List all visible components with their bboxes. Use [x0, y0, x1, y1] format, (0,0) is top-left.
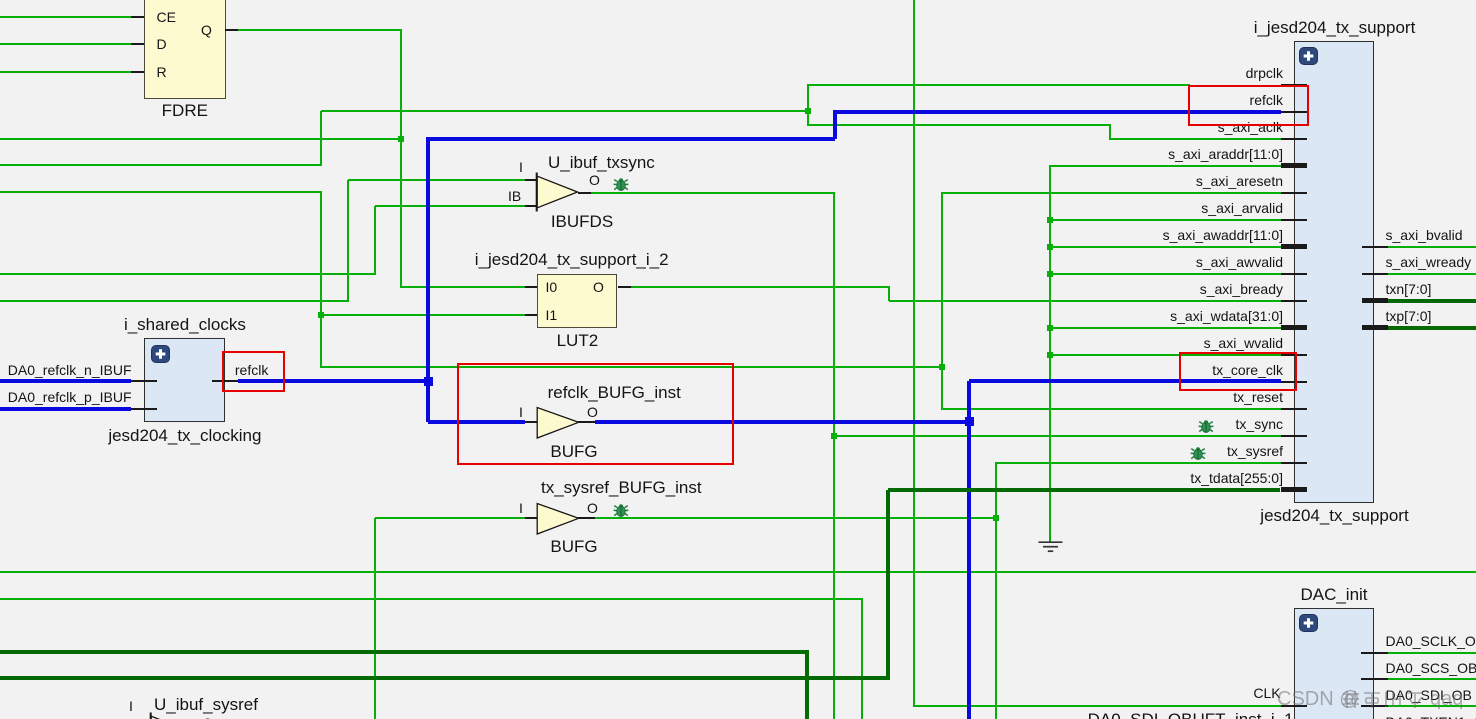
wire BUFG1 output blue — [595, 420, 969, 424]
label FDRE pin R — [157, 64, 167, 80]
wire IBUFDS I riser — [347, 180, 349, 301]
wire s_axi_arvalid wire — [1050, 219, 1281, 221]
block DAC_init — [1294, 608, 1374, 719]
pin stub IBUFDS O — [578, 192, 592, 194]
junction drpclk tap — [805, 108, 811, 114]
label support out label txp[7:0] — [1386, 308, 1432, 324]
wire net y598 drop — [861, 599, 863, 719]
wire LUT2 O jog — [888, 287, 890, 301]
pin stub support pin s_axi_wdata[31:0] — [1281, 325, 1307, 330]
label LUT2 pin I1 — [546, 307, 558, 323]
wire D input net — [0, 43, 131, 45]
wire s_axi_wready out wire — [1388, 273, 1476, 275]
label FDRE pin CE — [157, 9, 176, 25]
label support pin label s_axi_aresetn — [1023, 173, 1283, 189]
label DAC out label DA0_SCLK_OB — [1386, 633, 1476, 649]
pin stub BUFG1 O — [578, 421, 596, 423]
wire net A drpclk riser — [807, 84, 809, 127]
wire long vertical x914 — [913, 0, 915, 707]
junction wvalid tap — [1047, 352, 1053, 358]
wire tx_core_clk blue vertical — [967, 381, 971, 719]
wire IBUFDS IB feed — [0, 273, 376, 275]
pin stub support pin drpclk — [1281, 84, 1307, 86]
pin stub DAC out pin DA0_SCLK_OB — [1361, 652, 1388, 654]
wire LUT2 O wire — [631, 286, 890, 288]
junction Q net at y138 — [398, 136, 404, 142]
wire tx_sysref net vertical — [995, 463, 997, 719]
pin stub clocking in n — [131, 380, 157, 382]
wire IBUFDS O net vertical — [833, 193, 835, 719]
label support pin label tx_reset — [1023, 389, 1283, 405]
label instance U_ibuf_txsync — [548, 153, 655, 172]
pin stub support pin s_axi_awvalid — [1281, 273, 1307, 275]
label IBUFDS pin O — [589, 172, 600, 188]
label support pin label drpclk — [1023, 65, 1283, 81]
wire axi fanout vertical x1050 — [1049, 165, 1051, 543]
buffer U_ibuf_txsync IBUFDS — [535, 170, 582, 214]
label BUFG1 pin I — [519, 404, 523, 420]
pin stub clocking in p — [131, 408, 157, 410]
wire net A rise — [320, 111, 322, 166]
label support pin label s_axi_awaddr[11:0] — [1023, 227, 1283, 243]
wire s_axi_bvalid out wire — [1388, 246, 1476, 248]
wire s_axi_aclk wire — [1109, 138, 1281, 140]
label LUT2 name — [517, 331, 637, 350]
wire s_axi_aresetn wire — [942, 192, 1281, 194]
label module jesd204_tx_support — [1205, 506, 1465, 525]
label instance i_jesd204_tx_support_i_2 — [475, 250, 669, 269]
label instance refclk_BUFG_inst — [548, 383, 681, 402]
wire BUFG1 input blue — [428, 420, 525, 424]
label support pin label s_axi_araddr[11:0] — [1023, 146, 1283, 162]
debug bug icon on tx_sysref_BUFG O — [613, 503, 629, 518]
wire net B from left edge y191 — [0, 191, 322, 193]
label FDRE pin Q — [201, 22, 212, 38]
wire tx_tdata bus vertical — [886, 490, 890, 679]
label net DA0_refclk_n_IBUF — [0, 362, 132, 378]
junction tx_core_clk blue junction — [965, 417, 974, 426]
pin stub support pin tx_reset — [1281, 408, 1307, 410]
wire refclk blue wire to support — [833, 110, 1281, 114]
debug bug icon on tx_sync — [1198, 419, 1214, 434]
wire s_axi_wdata wire — [1050, 327, 1281, 329]
junction tx_sysref tap — [993, 515, 999, 521]
highlight box refclk pin — [1188, 85, 1308, 126]
wire net to left edge y138 — [0, 138, 402, 140]
label BUFG2 pin I — [519, 500, 523, 516]
junction reset net tap — [939, 364, 945, 370]
pin stub support out pin s_axi_wready — [1362, 273, 1388, 275]
wire sysref thick net bottom — [0, 650, 809, 654]
highlight box tx_core_clk pin — [1179, 352, 1298, 391]
label support pin label s_axi_wvalid — [1023, 335, 1283, 351]
wire tx_sync wire — [834, 435, 1281, 437]
label instance U_ibuf_sysref — [154, 695, 258, 714]
label support pin label s_axi_arvalid — [1023, 200, 1283, 216]
wire net B drop — [320, 191, 322, 368]
flip-flop FDRE — [144, 0, 226, 99]
label support pin label tx_sync — [1023, 416, 1283, 432]
label BUFG1 name — [514, 442, 634, 461]
label U_ibuf_sysref pin O — [202, 715, 213, 719]
wire BUFG2 output wire — [595, 517, 996, 519]
wire DA0_SCLK out wire — [1388, 652, 1476, 654]
pin stub FDRE CE — [131, 16, 144, 18]
junction refclk blue junction — [424, 377, 433, 386]
label module jesd204_tx_clocking — [75, 426, 295, 445]
junction wdata tap — [1047, 325, 1053, 331]
label DAC out label DA0_TXEN1_O — [1386, 714, 1476, 719]
wire DA0_refclk_n_IBUF blue input — [0, 379, 131, 383]
wire tx_reset wire — [942, 408, 1281, 410]
label IBUFDS pin IB — [508, 188, 521, 204]
wire refclk blue rise x835 — [833, 112, 837, 139]
label U_ibuf_sysref pin I — [129, 698, 133, 714]
wire IBUFDS IB riser — [374, 206, 376, 276]
label support pin label s_axi_awvalid — [1023, 254, 1283, 270]
highlight box refclk output — [222, 351, 284, 392]
pin stub FDRE R — [131, 71, 144, 73]
label DAC out label DA0_SCS_OB — [1386, 660, 1476, 676]
pin stub BUFG1 I — [525, 421, 537, 423]
wire R input net — [0, 71, 131, 73]
label support out label s_axi_bvalid — [1386, 227, 1463, 243]
wire net A jog2 — [1109, 125, 1111, 139]
label support pin label s_axi_aclk — [1023, 119, 1283, 135]
wire net B run to reset — [321, 366, 943, 368]
wire net A from left edge y164 — [0, 164, 322, 166]
junction awaddr tap — [1047, 244, 1053, 250]
wire s_axi_araddr wire — [1049, 165, 1281, 167]
wire LUT2 I1 wire — [321, 314, 525, 316]
wire DA0_SDI out wire — [1388, 705, 1476, 707]
gate LUT2 i_jesd204_tx_support_i_2 — [537, 274, 616, 328]
wire txn bus out wire — [1388, 299, 1476, 303]
label LUT2 pin O — [593, 279, 604, 295]
pin stub support pin s_axi_aclk — [1281, 138, 1307, 140]
label net DA0_refclk_p_IBUF — [0, 389, 132, 405]
wire txp bus out wire — [1388, 326, 1476, 330]
label support out label s_axi_wready — [1386, 254, 1472, 270]
junction LUT2 I1 tap — [318, 312, 324, 318]
wire DA0_refclk_p_IBUF blue input — [0, 407, 131, 411]
label FDRE pin D — [157, 36, 167, 52]
label IBUFDS name — [522, 212, 642, 231]
wire CE input net — [0, 16, 131, 18]
wire s_axi_bready wire — [889, 300, 1281, 302]
wire net A top run — [321, 110, 808, 112]
label BUFG2 pin O — [587, 500, 598, 516]
label support pin label refclk — [1023, 92, 1283, 108]
pin stub LUT2 I0 — [525, 286, 537, 288]
wire net A jog1 — [807, 124, 1111, 126]
pin stub DAC out pin DA0_SDI_OB — [1361, 705, 1388, 707]
pin stub support pin s_axi_bready — [1281, 300, 1307, 302]
wire FDRE Q net horizontal — [238, 29, 402, 31]
wire refclk blue top run — [426, 137, 835, 141]
pin stub support pin s_axi_araddr[11:0] — [1281, 163, 1307, 168]
label instance i_jesd204_tx_support — [1205, 18, 1465, 37]
label support pin label s_axi_bready — [1023, 281, 1283, 297]
pin stub support pin refclk — [1281, 111, 1307, 113]
wire sysref thick net drop — [805, 652, 809, 719]
label FDRE name — [125, 101, 245, 120]
label pin refclk of clocking — [235, 362, 268, 378]
wire tx_sysref wire — [995, 462, 1281, 464]
wire tx_tdata bus wire — [888, 488, 1280, 492]
pin stub support pin s_axi_wvalid — [1281, 354, 1307, 356]
pin stub FDRE Q — [225, 29, 238, 31]
wire refclk blue out of clocking — [238, 379, 428, 383]
wire IBUFDS I feed — [0, 300, 349, 302]
expand icon i_shared_clocks — [151, 345, 170, 363]
wire IBUFDS O wire — [591, 192, 835, 194]
pin stub support pin tx_sysref — [1281, 462, 1307, 464]
wire DAC CLK wire — [914, 705, 1281, 707]
wire FDRE Q net vertical to LUT2 I0 — [400, 29, 402, 287]
pin stub support pin s_axi_aresetn — [1281, 192, 1307, 194]
block i_jesd204_tx_support — [1294, 41, 1374, 503]
pin stub support pin tx_tdata[255:0] — [1281, 487, 1307, 492]
wire net y598 — [0, 598, 863, 600]
junction tx_sync tap — [831, 433, 837, 439]
pin stub LUT2 I1 — [525, 314, 537, 316]
pin stub DAC out pin DA0_SCS_OB — [1361, 678, 1388, 680]
label instance DA0_SDI_OBUFT_inst_i_1 — [1088, 710, 1294, 719]
wire full width net y571 — [0, 571, 1476, 573]
pin stub FDRE D — [131, 43, 144, 45]
pin stub support pin tx_sync — [1281, 435, 1307, 437]
pin stub IBUFDS IB — [525, 205, 537, 207]
label support out label txn[7:0] — [1386, 281, 1432, 297]
wire BUFG2 input feed vertical — [374, 518, 376, 719]
buffer U_ibuf_sysref IBUF partial — [149, 710, 196, 719]
wire s_axi_awaddr wire — [1050, 246, 1281, 248]
debug bug icon on U_ibuf_txsync O — [613, 177, 629, 192]
label support pin label tx_tdata[255:0] — [1023, 470, 1283, 486]
pin stub support out pin txp[7:0] — [1362, 325, 1388, 330]
pin stub IBUFDS I — [525, 179, 537, 181]
wire LUT2 I0 wire — [400, 286, 525, 288]
pin stub support pin s_axi_arvalid — [1281, 219, 1307, 221]
label LUT2 pin I0 — [546, 279, 558, 295]
label support pin label tx_sysref — [1023, 443, 1283, 459]
expand icon DAC_init — [1299, 614, 1318, 632]
label support pin label s_axi_wdata[31:0] — [1023, 308, 1283, 324]
label instance tx_sysref_BUFG_inst — [541, 478, 702, 497]
pin stub BUFG2 I — [525, 517, 537, 519]
label IBUFDS pin I — [519, 159, 523, 175]
pin stub support pin s_axi_awaddr[11:0] — [1281, 244, 1307, 249]
junction arvalid tap — [1047, 217, 1053, 223]
buffer refclk_BUFG_inst BUFG — [535, 406, 582, 440]
pin stub clocking refclk out — [212, 380, 238, 382]
watermark CSDN — [1277, 688, 1360, 711]
label instance DAC_init — [1234, 585, 1434, 604]
wire tx_core_clk blue wire — [969, 379, 1281, 383]
pin stub support out pin txn[7:0] — [1362, 298, 1388, 303]
wire aresetn riser at x942 — [941, 192, 943, 410]
block i_shared_clocks jesd204_tx_clocking — [144, 338, 224, 421]
wire DA0_SCS out wire — [1388, 678, 1476, 680]
label DAC pin CLK — [1181, 685, 1281, 701]
junction awvalid tap — [1047, 271, 1053, 277]
label instance i_shared_clocks — [85, 315, 285, 334]
pin stub DAC CLK pin — [1281, 705, 1307, 707]
highlight box refclk_BUFG_inst — [457, 363, 734, 465]
debug bug icon on tx_sysref — [1190, 446, 1206, 461]
wire tx_tdata bus bottom run — [0, 676, 890, 680]
buffer tx_sysref_BUFG_inst BUFG — [535, 502, 582, 536]
wire s_axi_wvalid wire — [1050, 354, 1281, 356]
label DAC out label DA0_SDI_OB — [1386, 687, 1472, 703]
wire refclk blue vertical x428 — [426, 139, 430, 422]
label BUFG2 name — [514, 537, 634, 556]
pin stub LUT2 O — [618, 286, 631, 288]
pin stub support out pin s_axi_bvalid — [1362, 246, 1388, 248]
wire IBUFDS IB wire — [375, 205, 525, 207]
pin stub support pin tx_core_clk — [1281, 381, 1307, 383]
wire BUFG2 input wire — [375, 517, 525, 519]
wire IBUFDS I wire — [348, 179, 525, 181]
expand icon i_jesd204_tx_support — [1299, 47, 1318, 65]
ground — [1038, 541, 1063, 554]
wire drpclk wire — [807, 84, 1191, 86]
pin stub BUFG2 O — [578, 517, 596, 519]
label support pin label tx_core_clk — [1023, 362, 1283, 378]
wire s_axi_awvalid wire — [1050, 273, 1281, 275]
label BUFG1 pin O — [587, 404, 598, 420]
